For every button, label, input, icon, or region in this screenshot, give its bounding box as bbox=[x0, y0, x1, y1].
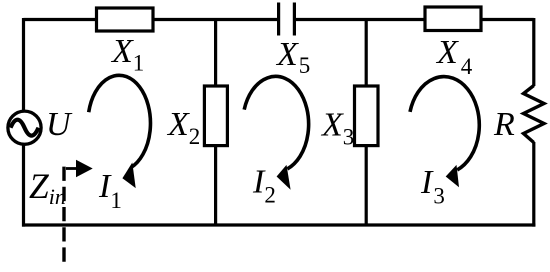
reactance X2 (box) bbox=[204, 86, 227, 146]
label I1 bbox=[98, 168, 122, 213]
reactance X4 (box) bbox=[425, 7, 481, 31]
label X1 bbox=[110, 33, 144, 76]
svg-text:X1: X1 bbox=[110, 33, 144, 76]
Zin direction arrow bbox=[66, 160, 93, 177]
mesh current arrow I2 bbox=[244, 76, 308, 189]
Zin dashed measurement line bbox=[62, 167, 65, 262]
label Zin bbox=[29, 166, 66, 209]
wire top bbox=[24, 18, 534, 21]
svg-text:X4: X4 bbox=[435, 34, 473, 79]
svg-text:I3: I3 bbox=[420, 164, 445, 209]
svg-text:X2: X2 bbox=[166, 106, 200, 149]
label I3 bbox=[420, 164, 445, 209]
label I2 bbox=[252, 164, 276, 208]
label U bbox=[46, 106, 73, 143]
resistor R (zigzag) bbox=[524, 86, 545, 143]
svg-text:X3: X3 bbox=[320, 107, 354, 150]
label X4 bbox=[435, 34, 473, 79]
svg-text:U: U bbox=[46, 106, 73, 143]
capacitor X5 plates bbox=[279, 3, 295, 36]
label X3 bbox=[320, 107, 354, 150]
svg-text:I1: I1 bbox=[98, 168, 122, 213]
reactance X1 (box) bbox=[97, 8, 154, 31]
mesh current arrow I1 bbox=[89, 75, 151, 188]
mesh current arrow I3 bbox=[410, 77, 479, 188]
reactance X3 (box) bbox=[355, 86, 379, 146]
svg-text:I2: I2 bbox=[252, 164, 276, 208]
wire right bbox=[532, 18, 535, 227]
wire branch X2 bbox=[214, 20, 217, 226]
wire bottom bbox=[22, 223, 535, 226]
label X5 bbox=[275, 36, 310, 78]
svg-text:Zin: Zin bbox=[29, 166, 66, 209]
label R bbox=[493, 106, 515, 143]
wire branch X3 bbox=[365, 20, 368, 226]
label X2 bbox=[166, 106, 200, 149]
svg-text:R: R bbox=[493, 106, 515, 143]
svg-text:X5: X5 bbox=[275, 36, 310, 78]
wire left bbox=[22, 18, 25, 227]
source U bbox=[8, 111, 41, 144]
